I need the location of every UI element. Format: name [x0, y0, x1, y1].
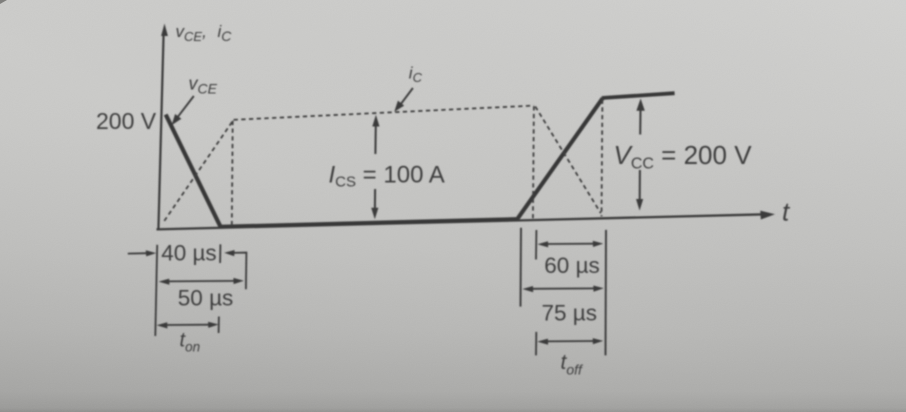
vCE pointer line — [177, 96, 194, 119]
dashed vertical at start of turn-off — [533, 106, 534, 220]
label 75 us — [542, 300, 598, 325]
60us dimension: left bar — [535, 230, 537, 260]
vCE waveform: falling edge (turn-on) — [166, 115, 221, 227]
iC dashed rising edge — [164, 121, 232, 221]
svg-text:50 µs: 50 µs — [178, 285, 234, 310]
60us dimension arrow — [544, 243, 598, 245]
svg-text:75 µs: 75 µs — [542, 300, 598, 325]
vCE waveform: on-state along axis — [220, 219, 520, 227]
label vCE with pointer — [189, 74, 218, 97]
dashed vertical at end of turn-off — [601, 100, 604, 217]
75us dimension arrow — [529, 287, 598, 289]
VCC dimension arrow (vertical double-headed) — [639, 111, 642, 200]
label 200 V (left) — [96, 108, 157, 134]
vCE pointer arrowhead — [172, 114, 182, 125]
iC dashed falling edge — [535, 107, 601, 214]
axis label vCE, iC — [176, 22, 233, 44]
turn-off dimension: tall right bar — [605, 230, 608, 356]
y-axis — [158, 33, 163, 230]
40us dimension: left bar — [155, 245, 157, 336]
turn-off dimension: tall left bar — [520, 228, 523, 307]
label t_off — [561, 351, 585, 378]
t_on dimension arrow — [164, 324, 214, 326]
40us dimension: exit arrow (points left) with corner down — [233, 253, 246, 290]
iC pointer line — [401, 88, 413, 105]
40us dimension: entry arrow (points right) — [128, 252, 147, 254]
40us dimension: right bar — [219, 244, 221, 263]
x-axis arrowhead — [760, 211, 775, 220]
iC dashed 100A level — [234, 106, 534, 120]
label t_on — [180, 330, 201, 355]
dark corner speck top-left — [0, 0, 7, 4]
svg-text:40 µs: 40 µs — [161, 240, 217, 265]
t_off dimension arrow — [544, 340, 598, 342]
label t (time axis) — [782, 197, 791, 227]
svg-text:60 µs: 60 µs — [544, 253, 600, 278]
label iC with pointer — [409, 64, 423, 86]
t_off dimension: left bar — [535, 332, 537, 356]
iC pointer arrowhead — [394, 101, 404, 112]
x-axis — [157, 214, 767, 229]
svg-text:200 V: 200 V — [96, 108, 157, 134]
label VCC = 200 V — [614, 140, 753, 173]
ICS dimension arrow (vertical double-headed) — [374, 124, 377, 210]
label 50 us — [178, 285, 234, 310]
t_on right bar — [218, 317, 220, 334]
vCE waveform: off-state top level — [602, 93, 675, 98]
dashed vertical at end of turn-on — [231, 121, 234, 227]
label 60 us — [544, 253, 600, 278]
y-axis arrowhead — [161, 24, 168, 37]
vCE waveform: rising edge (turn-off) — [518, 98, 603, 218]
label 40 us — [161, 240, 217, 265]
label ICS = 100 A — [329, 162, 445, 191]
50us dimension arrow — [165, 280, 238, 283]
